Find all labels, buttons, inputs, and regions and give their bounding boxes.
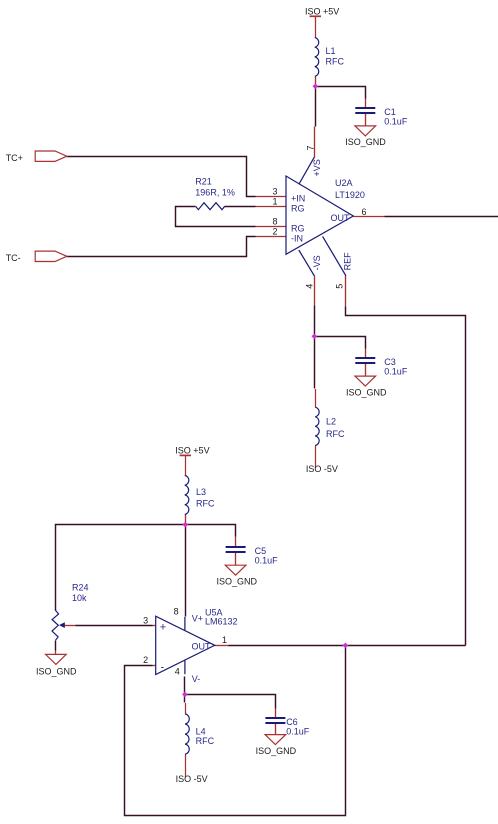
svg-text:ISO_GND: ISO_GND	[346, 387, 387, 397]
svg-text:+: +	[160, 622, 166, 634]
svg-text:OUT: OUT	[192, 641, 212, 651]
svg-text:1: 1	[222, 635, 227, 645]
svg-text:RG: RG	[291, 204, 305, 214]
svg-text:3: 3	[272, 187, 277, 197]
svg-text:LM6132: LM6132	[205, 616, 238, 626]
svg-text:ISO_GND: ISO_GND	[256, 746, 297, 756]
svg-text:OUT: OUT	[331, 213, 351, 223]
svg-text:ISO +5V: ISO +5V	[305, 6, 339, 16]
svg-text:RFC: RFC	[326, 429, 345, 439]
svg-text:RFC: RFC	[196, 736, 215, 746]
svg-text:TC+: TC+	[6, 153, 23, 163]
svg-text:+IN: +IN	[291, 193, 305, 203]
svg-text:C6: C6	[286, 717, 298, 727]
svg-text:-IN: -IN	[291, 233, 303, 243]
svg-text:C3: C3	[384, 357, 396, 367]
svg-text:10k: 10k	[72, 593, 87, 603]
svg-text:V-: V-	[192, 674, 201, 684]
svg-text:ISO_GND: ISO_GND	[36, 666, 77, 676]
svg-text:LT1920: LT1920	[335, 190, 365, 200]
svg-text:-: -	[161, 662, 165, 674]
svg-text:1: 1	[272, 197, 277, 207]
svg-text:C5: C5	[255, 546, 267, 556]
svg-text:0.1uF: 0.1uF	[384, 117, 408, 127]
svg-text:RG: RG	[291, 223, 305, 233]
svg-text:196R, 1%: 196R, 1%	[195, 187, 235, 197]
svg-text:R21: R21	[195, 177, 212, 187]
svg-text:ISO +5V: ISO +5V	[175, 445, 209, 455]
svg-text:3: 3	[143, 615, 148, 625]
svg-text:+VS: +VS	[312, 159, 322, 176]
svg-text:0.1uF: 0.1uF	[384, 367, 408, 377]
svg-text:RFC: RFC	[196, 498, 215, 508]
svg-text:0.1uF: 0.1uF	[286, 727, 310, 737]
svg-text:6: 6	[361, 207, 366, 217]
svg-text:2: 2	[143, 655, 148, 665]
svg-text:R24: R24	[72, 583, 89, 593]
svg-text:L3: L3	[196, 487, 206, 497]
svg-text:4: 4	[175, 666, 180, 676]
svg-text:ISO -5V: ISO -5V	[306, 464, 338, 474]
svg-text:ISO_GND: ISO_GND	[345, 137, 386, 147]
svg-text:U2A: U2A	[335, 178, 353, 188]
svg-text:REF: REF	[342, 252, 352, 271]
svg-text:ISO -5V: ISO -5V	[176, 774, 208, 784]
svg-text:8: 8	[272, 216, 277, 226]
svg-text:8: 8	[174, 607, 179, 617]
svg-text:-VS: -VS	[312, 255, 322, 270]
svg-text:0.1uF: 0.1uF	[255, 556, 279, 566]
svg-text:RFC: RFC	[326, 56, 345, 66]
svg-text:2: 2	[272, 226, 277, 236]
svg-text:TC-: TC-	[6, 253, 21, 263]
svg-text:L2: L2	[326, 416, 336, 426]
svg-text:V+: V+	[192, 614, 203, 624]
svg-text:ISO_GND: ISO_GND	[217, 576, 258, 586]
svg-text:L1: L1	[326, 46, 336, 56]
svg-text:4: 4	[305, 284, 315, 289]
svg-text:C1: C1	[384, 107, 396, 117]
svg-text:7: 7	[305, 145, 315, 150]
svg-text:5: 5	[334, 284, 344, 289]
